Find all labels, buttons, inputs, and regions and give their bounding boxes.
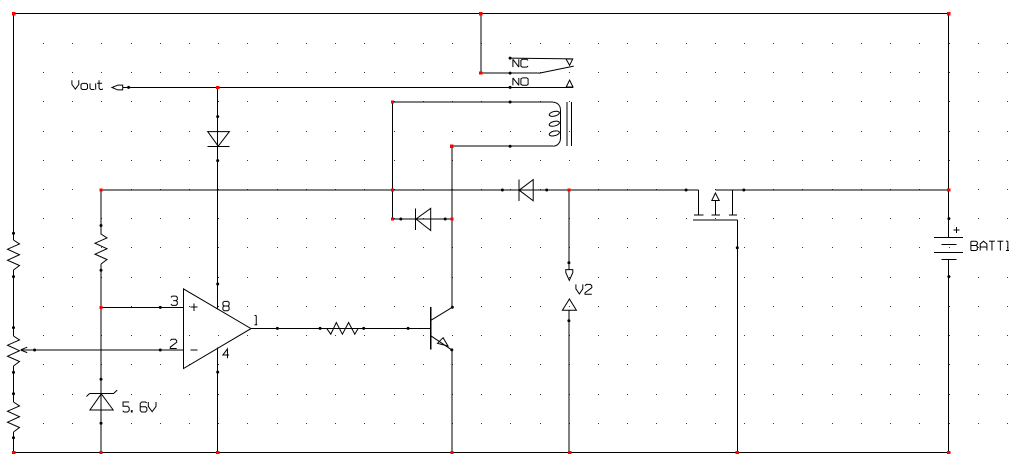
wire main rail left [101, 189, 698, 191]
MOSFET Q2 [685, 189, 746, 221]
diode D4 [208, 115, 230, 162]
junction top border / relay common [479, 12, 482, 15]
wire top border [14, 13, 949, 15]
wire emitter to ground [451, 350, 453, 453]
diode D2 [501, 180, 548, 202]
port V2 upper [566, 270, 573, 281]
zener diode D1 [86, 378, 117, 425]
wire coil left leg [392, 102, 394, 219]
wire left border upper [13, 14, 15, 240]
wire main rail right [715, 189, 949, 191]
resistor R4 [95, 224, 107, 272]
op-amp U1 [184, 289, 252, 369]
wire right border lower [948, 260, 950, 453]
resistor R1 [8, 232, 20, 278]
wire V2 lower [567, 310, 570, 452]
junction top-right corner [947, 12, 950, 15]
transistor Q1 [431, 306, 454, 352]
label V2 [576, 284, 592, 294]
junction node Vout / D4 [216, 86, 219, 89]
wire pin8 column [216, 87, 219, 309]
pin 3 label [171, 296, 177, 301]
wire left rail bottom [13, 432, 15, 453]
junction main rail / coil-D3 leg [391, 188, 394, 191]
wire op-amp output [251, 327, 431, 330]
junction D3 anode / collector [450, 217, 453, 220]
label Vout [72, 80, 103, 89]
junction main rail / battery positive [947, 188, 950, 191]
resistor R3 [8, 392, 20, 439]
wire left rail lower [13, 366, 15, 402]
relay contact NO terminal [566, 80, 573, 87]
label NO [513, 78, 528, 85]
relay armature [509, 66, 574, 75]
pin 1 label [254, 315, 256, 317]
label BATT1 [971, 241, 1009, 250]
junction ground / zener [99, 451, 102, 454]
wire pin4 column [216, 347, 219, 452]
junction D3 cathode corner [391, 217, 394, 220]
junction ground / V2 return [568, 451, 571, 454]
junction ground right corner [947, 451, 950, 454]
label 5.6V [123, 402, 156, 412]
junction relay common corner [479, 71, 482, 74]
relay K1 coil [392, 101, 571, 148]
battery BATT1 [934, 217, 963, 278]
junction ground left corner [12, 451, 15, 454]
potentiometer R2 [8, 326, 28, 374]
pin 2 label [170, 339, 176, 348]
port V2 lower [562, 299, 576, 310]
resistor R5 [319, 323, 410, 335]
wire R4 top [100, 190, 102, 235]
junction coil bottom corner [450, 145, 453, 148]
wire common contact [481, 14, 510, 73]
junction ground / emitter [450, 451, 453, 454]
pin 4 label [223, 349, 229, 358]
wire left rail mid [13, 270, 15, 336]
diode D3 [393, 208, 452, 230]
junction main rail left corner [99, 188, 102, 191]
pin 8 label [223, 301, 229, 306]
wire inverting input [21, 349, 183, 352]
junction ground / op-amp pin4 [216, 451, 219, 454]
port Vout [112, 85, 123, 90]
relay contact NC [509, 57, 573, 66]
wire Vout net [123, 86, 573, 89]
junction coil top / D3 leg corner [391, 100, 394, 103]
wire gate column [736, 220, 739, 452]
label NC [513, 59, 528, 67]
junction divider tap / op-amp + [99, 306, 102, 309]
wire V2 upper [567, 190, 570, 270]
wire noninverting input [101, 306, 183, 309]
wire bottom border [14, 452, 949, 454]
junction ground / gate [736, 451, 739, 454]
wire zener column [100, 264, 102, 453]
wire coil right leg [451, 146, 453, 307]
junction main rail / node V2 [567, 188, 570, 191]
junction top-left corner [12, 12, 15, 15]
wire right border upper [948, 14, 950, 238]
